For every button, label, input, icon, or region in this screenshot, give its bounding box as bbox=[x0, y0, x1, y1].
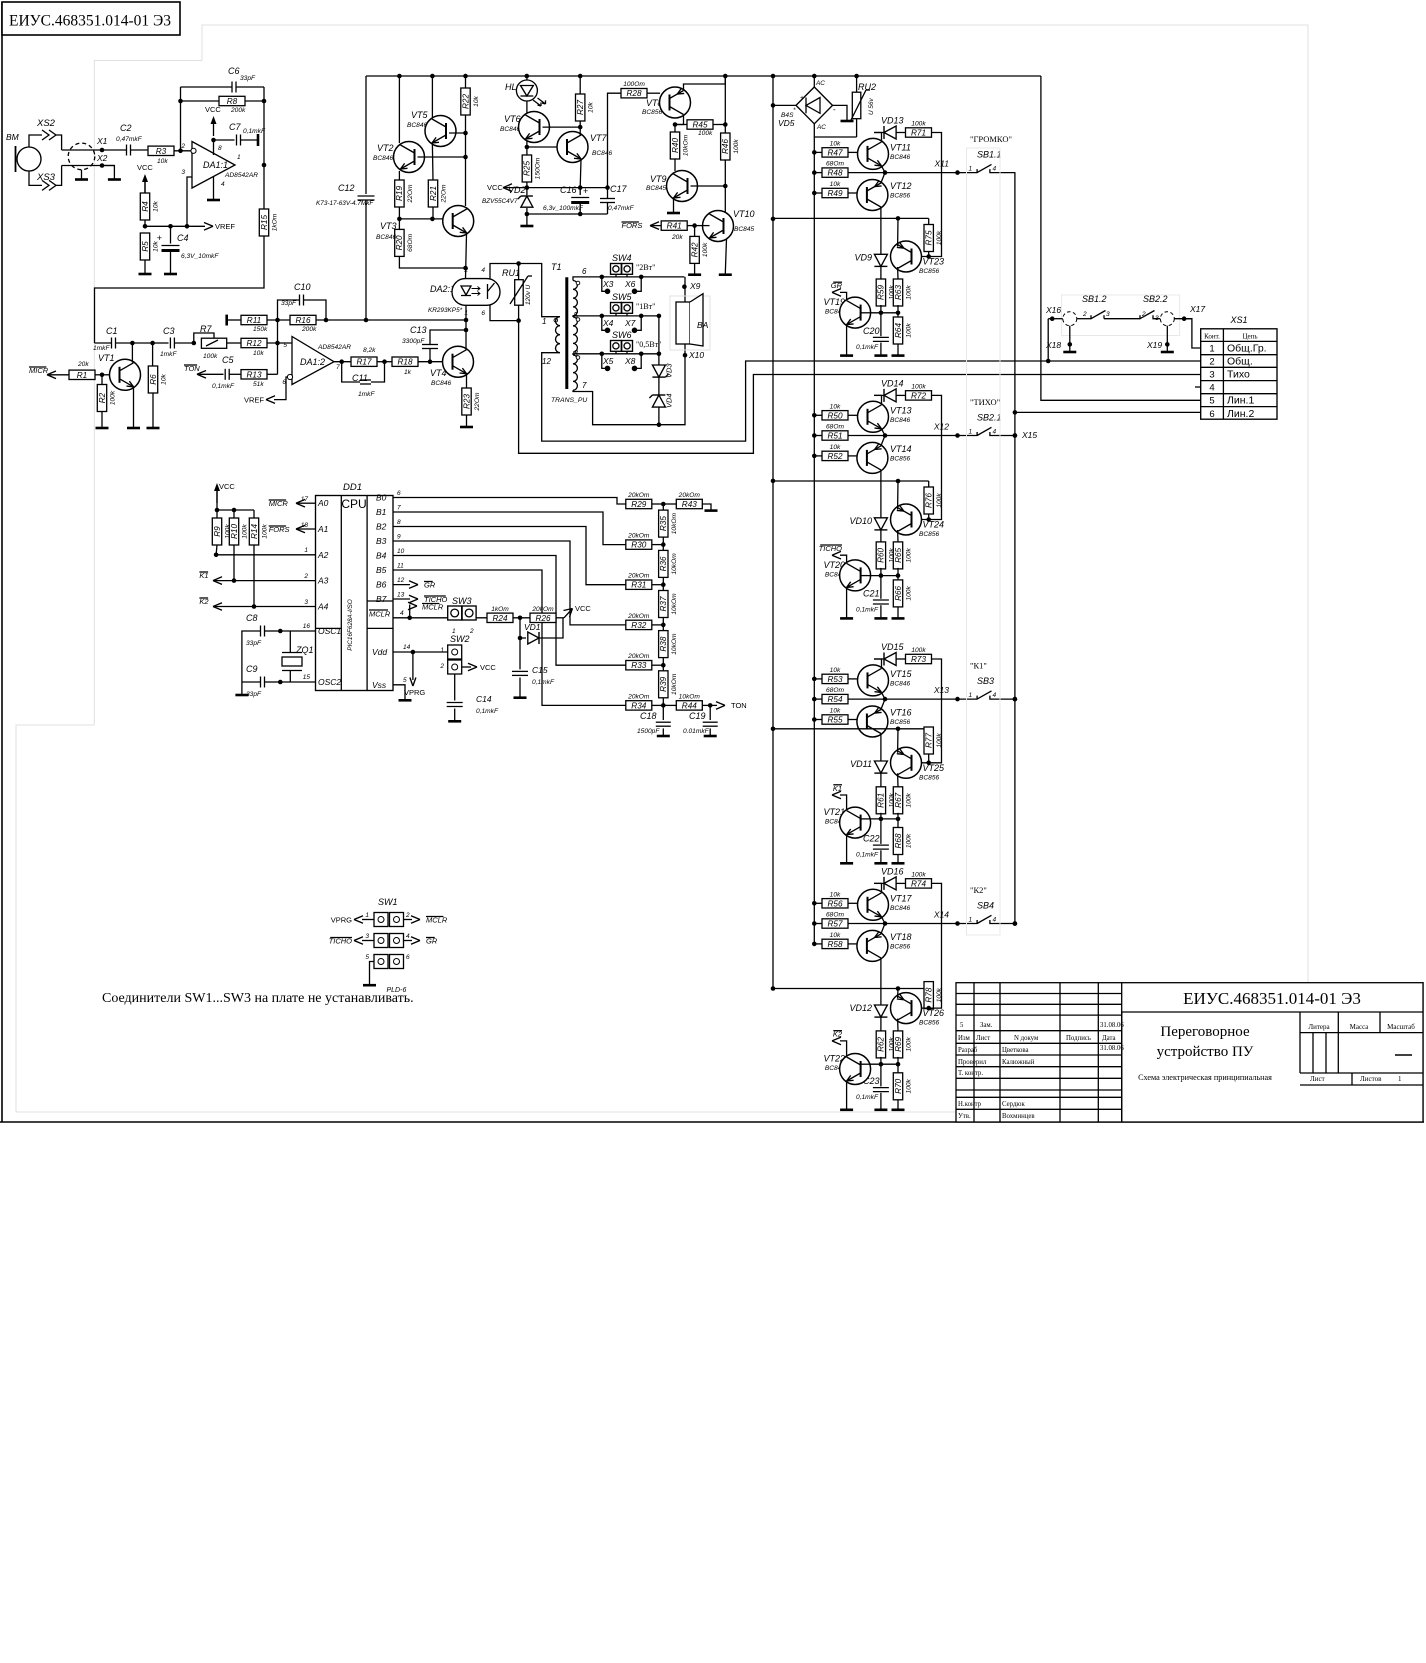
svg-text:1: 1 bbox=[969, 166, 973, 173]
wire emitter VT4 bbox=[466, 374, 468, 388]
svg-text:VCC: VCC bbox=[487, 183, 503, 192]
svg-text:Масштаб: Масштаб bbox=[1387, 1023, 1415, 1031]
svg-text:VD5: VD5 bbox=[778, 118, 795, 128]
svg-text:1: 1 bbox=[440, 647, 444, 654]
svg-text:Дата: Дата bbox=[1102, 1035, 1116, 1042]
resistor R3 bbox=[148, 146, 174, 155]
svg-text:BM: BM bbox=[6, 132, 20, 142]
wire VT13 emitter bbox=[882, 429, 886, 436]
wire VT11 collector bbox=[874, 133, 882, 142]
wire VT12 emitter bbox=[881, 173, 885, 183]
svg-text:10k: 10k bbox=[830, 667, 841, 674]
wire pin6 VREF bbox=[274, 377, 288, 400]
svg-text:R73: R73 bbox=[911, 655, 926, 664]
wire VT25 emitter bbox=[897, 729, 899, 753]
svg-text:22Om: 22Om bbox=[441, 184, 448, 203]
svg-text:BC856: BC856 bbox=[919, 268, 939, 275]
svg-text:20k: 20k bbox=[671, 234, 683, 241]
wire bbox=[377, 361, 392, 363]
svg-text:20kOm: 20kOm bbox=[627, 492, 650, 499]
ground bbox=[874, 862, 887, 865]
wire VT8 emitter bbox=[684, 76, 726, 91]
ground bbox=[127, 427, 140, 430]
wire X16 to bus bbox=[1047, 319, 1049, 361]
wire main bus column bbox=[813, 137, 815, 944]
svg-text:2: 2 bbox=[463, 267, 468, 274]
svg-text:"1Вт": "1Вт" bbox=[636, 302, 655, 311]
wire secondary bottom pin7 bbox=[573, 390, 659, 425]
resistor R2 bbox=[101, 375, 103, 385]
svg-text:68Om: 68Om bbox=[826, 912, 844, 919]
svg-text:VD13: VD13 bbox=[881, 116, 904, 126]
net arrow TICHO bbox=[840, 555, 847, 563]
ground bbox=[705, 509, 718, 512]
svg-text:0,47mkF: 0,47mkF bbox=[608, 205, 635, 212]
resistor R72 bbox=[906, 391, 932, 400]
svg-text:100k: 100k bbox=[906, 285, 913, 300]
svg-text:10kOm: 10kOm bbox=[671, 673, 678, 695]
wire to Lin2 row bbox=[1015, 411, 1201, 413]
svg-text:1: 1 bbox=[969, 692, 973, 699]
resistor R47 bbox=[812, 150, 817, 155]
svg-text:R6: R6 bbox=[149, 374, 158, 385]
wire collector VT4 bbox=[465, 305, 467, 349]
svg-text:R31: R31 bbox=[631, 581, 646, 590]
svg-text:AD8542AR: AD8542AR bbox=[317, 344, 351, 351]
ground bbox=[892, 1109, 905, 1112]
svg-text:T1: T1 bbox=[551, 262, 562, 272]
svg-text:120v U: 120v U bbox=[525, 284, 532, 305]
wire tap8 row bbox=[573, 354, 659, 355]
resistor R27 bbox=[576, 94, 585, 121]
wire left column x773 bbox=[772, 76, 774, 989]
wire bbox=[95, 374, 110, 376]
svg-text:1: 1 bbox=[1209, 344, 1214, 355]
svg-text:C8: C8 bbox=[246, 613, 258, 623]
svg-text:Изм: Изм bbox=[958, 1035, 970, 1042]
svg-text:VPRG: VPRG bbox=[404, 688, 425, 697]
svg-text:AD8542AR: AD8542AR bbox=[224, 172, 258, 179]
ground bbox=[657, 735, 670, 738]
svg-text:BC846: BC846 bbox=[890, 905, 910, 912]
wire collector bbox=[131, 343, 133, 363]
svg-text:100k: 100k bbox=[110, 390, 117, 405]
resistor R17 bbox=[351, 357, 377, 366]
wire VT18 emitter bbox=[881, 924, 885, 934]
svg-text:2: 2 bbox=[1082, 311, 1087, 318]
svg-text:6: 6 bbox=[1209, 409, 1214, 420]
wire VT3 emitter bbox=[466, 234, 467, 279]
svg-text:0,1mkF: 0,1mkF bbox=[856, 607, 879, 614]
svg-text:6,3v_100mkF: 6,3v_100mkF bbox=[543, 205, 584, 212]
wire VT16 collector down to diode bbox=[880, 734, 882, 762]
VREF arrow bbox=[204, 223, 213, 231]
wire primary bottom pin12 bbox=[542, 353, 1201, 441]
wire node row bbox=[861, 1063, 898, 1065]
svg-text:SW4: SW4 bbox=[612, 253, 632, 263]
svg-text:1500pF: 1500pF bbox=[637, 728, 660, 735]
wire R12 to pin5 bbox=[267, 342, 292, 344]
resistor R32 bbox=[626, 620, 652, 629]
svg-text:R40: R40 bbox=[671, 138, 680, 153]
svg-text:B5: B5 bbox=[376, 565, 387, 575]
wire R19/R21 tie bbox=[399, 218, 433, 220]
svg-text:R39: R39 bbox=[659, 676, 668, 691]
svg-text:VD12: VD12 bbox=[849, 1003, 872, 1013]
svg-text:Лин.1: Лин.1 bbox=[1227, 395, 1254, 407]
node X15 bbox=[1013, 433, 1018, 438]
wire VT13 collector bbox=[874, 395, 882, 404]
wire VT23 emitter bbox=[897, 218, 899, 246]
svg-text:N докум: N докум bbox=[1014, 1035, 1039, 1042]
svg-text:TON: TON bbox=[731, 701, 747, 710]
svg-text:20kOm: 20kOm bbox=[627, 573, 650, 580]
svg-text:B0: B0 bbox=[376, 493, 387, 503]
svg-text:B4: B4 bbox=[376, 551, 387, 561]
resistor R48 bbox=[812, 170, 817, 175]
svg-text:X12: X12 bbox=[933, 422, 949, 432]
svg-text:100k: 100k bbox=[906, 548, 913, 563]
wire output bbox=[334, 361, 351, 363]
svg-text:VD11: VD11 bbox=[850, 759, 872, 769]
svg-text:U 56v: U 56v bbox=[868, 98, 875, 115]
resistor R73 bbox=[906, 654, 932, 663]
svg-text:R3: R3 bbox=[156, 147, 167, 156]
svg-text:20k: 20k bbox=[77, 361, 89, 368]
resistor R29 bbox=[626, 499, 652, 508]
wire VT9 emitter bbox=[673, 199, 675, 213]
wire R78 bottom bbox=[928, 1007, 930, 1010]
resistor R49 bbox=[812, 191, 817, 196]
svg-text:R47: R47 bbox=[827, 148, 842, 157]
wire node row bbox=[861, 312, 898, 314]
svg-text:VD4: VD4 bbox=[665, 393, 674, 408]
svg-text:Vss: Vss bbox=[372, 680, 387, 690]
svg-text:Схема электрическая принципиал: Схема электрическая принципиальная bbox=[1138, 1073, 1272, 1082]
resistor R71 bbox=[906, 128, 932, 137]
svg-text:VT23: VT23 bbox=[923, 257, 945, 267]
svg-text:10k: 10k bbox=[588, 101, 595, 112]
svg-text:C21: C21 bbox=[863, 589, 880, 599]
svg-text:R65: R65 bbox=[894, 547, 903, 562]
resistor R61 bbox=[876, 787, 885, 814]
svg-text:R69: R69 bbox=[894, 1036, 903, 1051]
svg-text:SW3: SW3 bbox=[452, 596, 472, 606]
svg-text:R72: R72 bbox=[911, 391, 926, 400]
wire pin4 to RU1 top bbox=[490, 264, 560, 317]
svg-text:X19: X19 bbox=[1146, 340, 1162, 350]
svg-text:R25: R25 bbox=[523, 161, 532, 176]
wire VT12 collector down to diode bbox=[880, 207, 882, 254]
resistor R42 bbox=[694, 226, 696, 237]
resistor R38 bbox=[659, 631, 668, 658]
T1 secondary winding bbox=[573, 281, 577, 316]
svg-text:Соединители SW1...SW3 на плате: Соединители SW1...SW3 на плате не устана… bbox=[102, 991, 414, 1006]
wire tap6 row bbox=[573, 277, 684, 281]
gray guide box switches bbox=[967, 148, 1001, 935]
svg-text:C10: C10 bbox=[294, 282, 311, 292]
svg-text:VT15: VT15 bbox=[890, 669, 913, 679]
svg-text:A4: A4 bbox=[317, 602, 329, 612]
resistor R18 bbox=[392, 357, 418, 366]
svg-text:R36: R36 bbox=[659, 556, 668, 571]
svg-text:"К2": "К2" bbox=[970, 885, 987, 895]
svg-text:R1: R1 bbox=[77, 371, 87, 380]
svg-text:X2: X2 bbox=[96, 153, 108, 163]
svg-text:5: 5 bbox=[960, 1022, 964, 1029]
wire VT24 collector bbox=[897, 530, 899, 542]
svg-text:10k: 10k bbox=[830, 891, 841, 898]
svg-text:VCC: VCC bbox=[480, 663, 496, 672]
svg-text:10kOm: 10kOm bbox=[671, 633, 678, 655]
wire R22 column bbox=[465, 115, 467, 206]
svg-text:R2: R2 bbox=[98, 392, 107, 403]
svg-text:Т. контр.: Т. контр. bbox=[958, 1070, 983, 1077]
svg-text:12: 12 bbox=[542, 357, 551, 366]
resistor R22 bbox=[461, 88, 470, 115]
svg-text:VT17: VT17 bbox=[890, 893, 913, 903]
wire VT18 collector down to diode bbox=[880, 958, 882, 1005]
svg-text:R56: R56 bbox=[827, 899, 842, 908]
net VPRG arrow SW1 bbox=[362, 919, 374, 921]
ground bbox=[874, 617, 887, 620]
svg-text:R61: R61 bbox=[877, 793, 886, 808]
svg-text:0,1mkF: 0,1mkF bbox=[856, 344, 879, 351]
wire X1 row bbox=[62, 149, 126, 151]
svg-text:2: 2 bbox=[439, 663, 444, 670]
svg-text:6: 6 bbox=[582, 267, 587, 276]
resistor R44 bbox=[663, 704, 676, 706]
wire VT2 emitter bbox=[398, 171, 400, 180]
resistor R11 bbox=[241, 315, 267, 324]
net GR arrow SW1 bbox=[404, 940, 413, 942]
wire emitter rail bbox=[773, 988, 929, 990]
svg-text:VT6: VT6 bbox=[504, 114, 521, 124]
svg-text:BC856: BC856 bbox=[919, 531, 939, 538]
wire R28 to VT8 bbox=[647, 92, 660, 94]
ground bbox=[874, 354, 887, 357]
svg-text:BC846: BC846 bbox=[373, 155, 393, 162]
svg-text:VT9: VT9 bbox=[650, 174, 667, 184]
svg-text:R18: R18 bbox=[397, 358, 412, 367]
svg-text:20kOm: 20kOm bbox=[627, 533, 650, 540]
svg-text:VT1: VT1 bbox=[98, 353, 115, 363]
wire bridge bottom bbox=[814, 124, 856, 137]
svg-text:6: 6 bbox=[481, 310, 485, 317]
terminal bar R11 bbox=[225, 315, 228, 326]
wire C17 to R28 bbox=[608, 93, 622, 187]
svg-text:VT10: VT10 bbox=[733, 209, 755, 219]
svg-text:4: 4 bbox=[221, 181, 225, 188]
node X17 bbox=[1174, 318, 1192, 320]
svg-text:R42: R42 bbox=[690, 242, 699, 257]
svg-text:R74: R74 bbox=[911, 879, 926, 888]
svg-text:C6: C6 bbox=[228, 66, 240, 76]
svg-text:R70: R70 bbox=[894, 1078, 903, 1093]
svg-text:SB1.2: SB1.2 bbox=[1082, 294, 1107, 304]
resistor R45 bbox=[687, 120, 713, 129]
wire VT16 emitter bbox=[881, 699, 885, 709]
svg-text:15: 15 bbox=[303, 674, 311, 681]
svg-text:C13: C13 bbox=[410, 325, 427, 335]
svg-text:100k: 100k bbox=[242, 524, 249, 539]
svg-text:Калюжный: Калюжный bbox=[1002, 1059, 1035, 1066]
title block litera table bbox=[1299, 1012, 1301, 1073]
ground bbox=[840, 862, 853, 865]
svg-text:R51: R51 bbox=[827, 432, 842, 441]
svg-text:SB2.1: SB2.1 bbox=[977, 413, 1002, 423]
resistor R70 bbox=[897, 1064, 899, 1073]
svg-text:1: 1 bbox=[464, 310, 468, 317]
svg-text:3: 3 bbox=[181, 169, 185, 176]
net TON arrow bbox=[716, 702, 725, 710]
svg-text:R50: R50 bbox=[827, 411, 842, 420]
svg-text:4: 4 bbox=[993, 166, 997, 173]
svg-text:VD10: VD10 bbox=[849, 516, 872, 526]
svg-text:0,1mkF: 0,1mkF bbox=[212, 383, 235, 390]
wire X2 row bbox=[62, 165, 115, 167]
svg-text:1kOm: 1kOm bbox=[491, 606, 509, 613]
svg-text:1mkF: 1mkF bbox=[358, 391, 375, 398]
capacitor C4 bbox=[170, 226, 172, 243]
svg-text:Vdd: Vdd bbox=[372, 647, 387, 657]
svg-text:150k: 150k bbox=[253, 326, 268, 333]
svg-text:100k: 100k bbox=[702, 242, 709, 257]
wire top rail to Lin1 bbox=[1041, 76, 1201, 400]
svg-text:Подпись: Подпись bbox=[1066, 1035, 1091, 1042]
wire bbox=[29, 135, 42, 147]
bus R11 column bbox=[277, 320, 279, 374]
svg-text:6: 6 bbox=[397, 490, 401, 497]
svg-text:4: 4 bbox=[400, 610, 404, 617]
resistor R25 bbox=[522, 155, 531, 182]
resistor R15 bbox=[259, 209, 268, 236]
contact circle SB1.2 left bbox=[1063, 312, 1077, 326]
svg-text:R15: R15 bbox=[260, 215, 269, 230]
svg-text:VT18: VT18 bbox=[890, 932, 912, 942]
svg-text:BC846: BC846 bbox=[407, 122, 427, 129]
svg-text:B3: B3 bbox=[376, 536, 387, 546]
ground bbox=[147, 427, 160, 430]
svg-text:VT25: VT25 bbox=[923, 763, 946, 773]
svg-text:8,2k: 8,2k bbox=[363, 347, 376, 354]
svg-text:R54: R54 bbox=[827, 695, 842, 704]
svg-text:100k: 100k bbox=[911, 121, 926, 128]
svg-text:VD1: VD1 bbox=[524, 622, 541, 632]
resistor R69 bbox=[893, 1031, 902, 1058]
svg-text:DA1:2: DA1:2 bbox=[300, 357, 325, 367]
svg-text:0,1mkF: 0,1mkF bbox=[856, 852, 879, 859]
svg-text:R45: R45 bbox=[692, 121, 707, 130]
svg-text:SW2: SW2 bbox=[450, 634, 470, 644]
svg-text:C4: C4 bbox=[177, 233, 189, 243]
svg-text:R55: R55 bbox=[827, 716, 842, 725]
svg-text:X14: X14 bbox=[933, 910, 949, 920]
resistor R28 bbox=[621, 89, 647, 98]
svg-text:0,1mkF: 0,1mkF bbox=[243, 128, 266, 135]
wire row4 stub bbox=[1195, 386, 1201, 388]
svg-text:SW5: SW5 bbox=[612, 292, 632, 302]
svg-text:33pF: 33pF bbox=[246, 691, 262, 698]
svg-text:0,1mkF: 0,1mkF bbox=[532, 679, 555, 686]
svg-text:Разраб: Разраб bbox=[958, 1047, 978, 1054]
svg-text:R66: R66 bbox=[894, 585, 903, 600]
svg-text:R43: R43 bbox=[682, 500, 697, 509]
svg-text:6: 6 bbox=[406, 954, 410, 961]
svg-text:Переговорное: Переговорное bbox=[1160, 1024, 1250, 1040]
svg-text:B1: B1 bbox=[376, 507, 387, 517]
capacitor C7 bbox=[214, 139, 235, 141]
wire VCC rail bbox=[503, 187, 608, 189]
resistor R12 bbox=[241, 338, 267, 347]
svg-text:Цветкова: Цветкова bbox=[1002, 1047, 1029, 1054]
ground bbox=[840, 1109, 853, 1112]
svg-text:VT12: VT12 bbox=[890, 181, 912, 191]
svg-text:CPU: CPU bbox=[341, 497, 366, 511]
resistor R50 bbox=[812, 413, 817, 418]
svg-text:"2Вт": "2Вт" bbox=[636, 263, 655, 272]
wire VT5 emitter bbox=[431, 145, 434, 180]
resistor R43 bbox=[663, 503, 676, 505]
svg-text:SB1.1: SB1.1 bbox=[977, 150, 1002, 160]
wire RU1 bottom bus to XS1 row3 bbox=[519, 321, 1201, 454]
svg-text:10k: 10k bbox=[830, 140, 841, 147]
svg-text:4: 4 bbox=[406, 933, 410, 940]
svg-text:OSC1: OSC1 bbox=[318, 626, 341, 636]
wire VT22 emitter bbox=[846, 1082, 848, 1109]
wire R74 output column bbox=[913, 883, 942, 1008]
VCC arrow SW2 bbox=[462, 666, 471, 668]
resistor R30 bbox=[626, 540, 652, 549]
resistor R26 bbox=[530, 613, 556, 622]
wire R71 output column bbox=[913, 133, 942, 257]
svg-text:VT2: VT2 bbox=[377, 143, 394, 153]
resistor R40 bbox=[670, 132, 679, 159]
svg-text:10k: 10k bbox=[157, 158, 168, 165]
svg-text:22Om: 22Om bbox=[407, 184, 414, 203]
svg-text:R77: R77 bbox=[925, 733, 934, 748]
svg-text:1mkF: 1mkF bbox=[160, 351, 177, 358]
wire R73 output column bbox=[913, 659, 942, 763]
svg-text:Проверил: Проверил bbox=[958, 1059, 987, 1066]
wire VT20 emitter bbox=[846, 588, 848, 618]
svg-text:Общ.: Общ. bbox=[1227, 356, 1253, 368]
svg-text:R38: R38 bbox=[659, 636, 668, 651]
svg-text:OSC2: OSC2 bbox=[318, 677, 341, 687]
svg-text:Лист: Лист bbox=[976, 1035, 990, 1042]
resistor R19 bbox=[395, 180, 404, 207]
wire VT5 base bbox=[449, 132, 466, 134]
svg-text:BC856: BC856 bbox=[642, 109, 662, 116]
svg-text:VT26: VT26 bbox=[923, 1008, 945, 1018]
svg-text:VCC: VCC bbox=[219, 482, 235, 491]
resistor R60 bbox=[876, 542, 885, 569]
ground bbox=[892, 862, 905, 865]
svg-text:R22: R22 bbox=[461, 94, 470, 109]
svg-text:R44: R44 bbox=[682, 701, 697, 710]
svg-text:1: 1 bbox=[969, 429, 973, 436]
plug connector bbox=[68, 143, 95, 170]
svg-text:4: 4 bbox=[993, 692, 997, 699]
svg-text:200k: 200k bbox=[230, 107, 246, 114]
resistor R58 bbox=[812, 942, 817, 947]
wire speaker column bbox=[659, 277, 685, 425]
svg-text:-: - bbox=[833, 105, 836, 114]
svg-text:33pF: 33pF bbox=[246, 640, 262, 647]
svg-text:Конт.: Конт. bbox=[1204, 333, 1220, 341]
svg-text:20kOm: 20kOm bbox=[678, 492, 701, 499]
wire VT26 emitter bbox=[897, 989, 899, 999]
